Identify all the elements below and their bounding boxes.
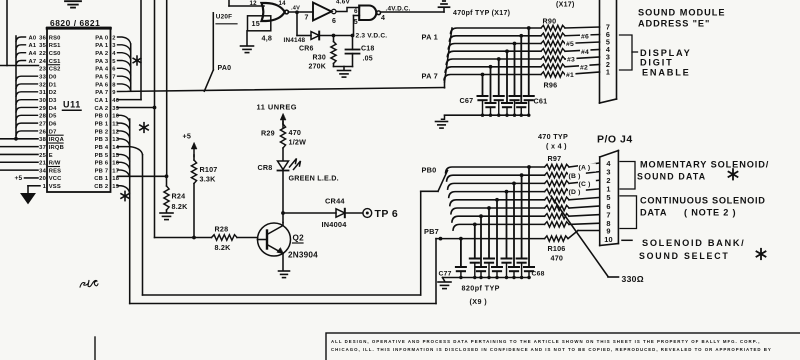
wire pin10 tick <box>622 239 632 241</box>
label MOMENTARY SOLENOID / SOUND DATA <box>637 159 769 181</box>
wire PB hook vertical outer <box>129 119 131 304</box>
resistor R96 470pf network row 7 <box>541 72 565 77</box>
pin 16 PB 6 of U11 <box>95 161 120 167</box>
svg-text:40: 40 <box>112 98 119 104</box>
wire capacitor common ground line (PA bank) <box>445 114 531 117</box>
svg-text:#4: #4 <box>581 49 589 56</box>
svg-text:3: 3 <box>112 43 116 49</box>
pin 3 of sound connector <box>606 53 610 62</box>
svg-text:9: 9 <box>112 90 116 96</box>
svg-text:CR8: CR8 <box>258 163 273 172</box>
asterisk at sound select <box>757 249 766 259</box>
svg-text:PA 2: PA 2 <box>95 51 108 57</box>
wire PB 2 hook <box>118 131 130 138</box>
svg-text:11 UNREG: 11 UNREG <box>257 102 298 111</box>
svg-text:PA 7: PA 7 <box>422 72 438 81</box>
wire D0 hook to bus <box>16 76 38 81</box>
label .4V <box>291 5 300 11</box>
resistor R29 470 1/2W <box>261 122 306 161</box>
label R106 470 <box>548 244 566 262</box>
svg-text:ADDRESS "E": ADDRESS "E" <box>638 18 710 28</box>
svg-text:( x 4 ): ( x 4 ) <box>546 141 567 150</box>
svg-text:10: 10 <box>112 114 119 120</box>
label 4.6V (clipped) <box>336 0 350 5</box>
svg-text:7: 7 <box>112 74 115 80</box>
svg-text:PA 1: PA 1 <box>422 33 438 42</box>
wire PA fan row to pin 1 <box>444 72 600 80</box>
svg-text:CA 1: CA 1 <box>95 98 109 104</box>
handwritten mark <box>80 280 98 287</box>
svg-text:SOUND MODULE: SOUND MODULE <box>638 8 726 18</box>
svg-text:#3: #3 <box>567 57 575 64</box>
svg-text:1/2W: 1/2W <box>289 138 307 147</box>
svg-text:PA 0: PA 0 <box>95 35 108 41</box>
svg-text:13: 13 <box>112 137 119 143</box>
wire PB inner loop bottom <box>143 191 421 295</box>
wire PA fan row to pin 6 <box>449 35 599 42</box>
svg-text:CR6: CR6 <box>299 46 314 53</box>
label 470 TYP (x4) <box>538 132 568 150</box>
label .4V.D.C. <box>386 6 411 13</box>
svg-text:5: 5 <box>112 59 116 65</box>
pin 19 CB 2 of U11 <box>94 184 119 190</box>
wire PB4 fan row <box>450 197 600 205</box>
svg-text:470: 470 <box>551 253 564 262</box>
svg-text:R24: R24 <box>172 191 186 200</box>
capacitor C74 820pf <box>484 259 494 278</box>
pin 10 of J4 <box>604 235 613 244</box>
svg-text:C77: C77 <box>439 270 452 277</box>
svg-text:PA 3: PA 3 <box>95 59 109 65</box>
ground at R30/C18 <box>338 71 351 78</box>
svg-text:MOMENTARY SOLENOID/: MOMENTARY SOLENOID/ <box>640 159 769 169</box>
power +5 at VCC pin 20 <box>15 175 39 182</box>
label #5 <box>565 40 575 48</box>
svg-text:.05: .05 <box>363 56 373 63</box>
label 470pf TYP (X17) <box>453 10 510 17</box>
pin 14 PB 4 of U11 <box>95 145 120 151</box>
svg-text:CONTINUOUS SOLENOID: CONTINUOUS SOLENOID <box>640 195 766 205</box>
svg-text:A0: A0 <box>28 35 36 41</box>
capacitor C65 470pf <box>494 96 504 115</box>
capacitor C63 470pf <box>510 96 520 115</box>
label (A ) <box>578 163 596 171</box>
pin 4 PA 2 of U11 <box>95 51 116 57</box>
svg-text:19: 19 <box>112 184 119 190</box>
resistor R103 470 row <box>545 214 569 219</box>
wire capacitor stub row 1 <box>527 26 531 96</box>
wire capacitor stub row 7 <box>481 73 485 96</box>
svg-text:Q2: Q2 <box>293 233 305 242</box>
wire PA fan row to pin 4 <box>447 50 599 57</box>
wire PB 1 hook <box>118 123 130 130</box>
svg-text:ALL DESIGN, OPERATIVE AND: ALL DESIGN, OPERATIVE AND PROCESS DATA P… <box>331 339 761 344</box>
wire A0 hook to bus <box>16 37 26 42</box>
svg-text:RS0: RS0 <box>49 35 61 41</box>
svg-text:+5: +5 <box>15 175 23 182</box>
svg-text:IRQB: IRQB <box>49 145 64 151</box>
svg-text:35: 35 <box>39 43 46 49</box>
connector sound module address <box>600 0 617 103</box>
svg-text:C61: C61 <box>534 96 548 105</box>
resistor R30 270K <box>309 36 337 71</box>
label pins 4,8 <box>262 33 273 42</box>
capacitor C72 820pf <box>502 259 512 278</box>
wire PB2 fan row <box>448 180 600 189</box>
svg-text:470pf TYP (X17): 470pf TYP (X17) <box>453 10 510 17</box>
resistor R98 470 row <box>545 173 569 178</box>
wire PA6 hook <box>118 84 131 91</box>
resistor R95 470pf network row 6 <box>541 64 565 69</box>
svg-text:P/O J4: P/O J4 <box>597 134 633 146</box>
svg-text:CHICAGO, ILL. THIS INFORMATI: CHICAGO, ILL. THIS INFORMATION IS DISCLO… <box>331 347 772 352</box>
wire PA2 hook <box>118 53 131 60</box>
svg-text:4.6V: 4.6V <box>336 0 350 5</box>
wire R106 row to pin 9 <box>436 231 600 242</box>
pin 1 VSS of U11 <box>43 184 61 190</box>
svg-text:RS1: RS1 <box>49 43 61 49</box>
pin 32 D1 of U11 <box>39 82 57 88</box>
svg-text:VSS: VSS <box>49 184 61 190</box>
resistor R24 8.2K <box>164 176 188 212</box>
resistor R99 470 row <box>545 181 569 186</box>
wire input 15 loop box <box>248 16 271 31</box>
wire input 12 from top edge <box>229 0 264 7</box>
svg-text:15: 15 <box>252 19 260 28</box>
ground at NAND output (clipped) <box>439 1 450 7</box>
wire PB 7 hook <box>118 170 130 177</box>
svg-text:1: 1 <box>43 184 47 190</box>
wire address/data bus vertical B <box>15 36 17 138</box>
wire R/W net from left edge <box>0 161 38 163</box>
svg-text:470: 470 <box>289 128 302 137</box>
bracket continuous solenoid <box>620 196 637 229</box>
svg-text:21: 21 <box>39 161 46 167</box>
svg-text:#6: #6 <box>581 33 589 40</box>
wire D1 hook to bus <box>16 84 38 89</box>
pin 39 CA 2 of U11 <box>95 106 120 112</box>
svg-text:U20F: U20F <box>216 13 232 20</box>
pin 8 of J4 <box>606 219 610 228</box>
svg-text:C18: C18 <box>361 46 374 53</box>
svg-text:820pf TYP: 820pf TYP <box>462 284 500 293</box>
resistor R107 3.3K <box>191 155 217 238</box>
pin 2 of J4 <box>606 176 610 185</box>
svg-text:CR44: CR44 <box>325 197 345 206</box>
svg-text:VCC: VCC <box>49 176 62 182</box>
svg-text:14: 14 <box>112 145 119 151</box>
wire RES net from left edge <box>0 169 38 171</box>
svg-text:U11: U11 <box>63 100 81 110</box>
pin 4 of J4 <box>606 159 611 168</box>
pin 3 of J4 <box>606 167 610 176</box>
wire U20F output node <box>288 10 313 35</box>
pin 40 CA 1 of U11 <box>95 98 120 104</box>
svg-text:25: 25 <box>39 153 46 159</box>
wire PB 0 hook <box>118 115 130 122</box>
capacitor C70 820pf <box>517 259 527 278</box>
wire capacitor stub J4 row 8 <box>473 223 477 259</box>
label C67 <box>460 96 474 105</box>
label C61 <box>534 96 548 105</box>
svg-text:26: 26 <box>39 129 46 135</box>
svg-text:270K: 270K <box>309 64 327 71</box>
label R97 <box>548 154 562 163</box>
wire A7 hook to bus <box>16 60 26 64</box>
pin 20 VCC of U11 <box>39 176 62 182</box>
ground at Q2 emitter <box>279 271 290 278</box>
label #4 <box>580 48 590 56</box>
pin 4 of sound connector <box>606 45 610 54</box>
svg-text:D4: D4 <box>49 106 57 112</box>
LED CR8 GREEN <box>258 159 339 183</box>
wire PB4 hook to inner vertical <box>118 147 143 295</box>
transistor Q2 2N3904 <box>258 223 319 260</box>
diode CR44 IN4004 <box>322 197 348 230</box>
pin 34 RES of U11 <box>39 167 61 175</box>
svg-text:32: 32 <box>39 82 46 88</box>
wire PB0 fan row <box>446 163 600 173</box>
svg-text:R107: R107 <box>200 165 218 174</box>
label PB0 <box>422 165 437 174</box>
bracket momentary solenoid <box>620 162 635 190</box>
pin 37 IRQB of U11 <box>39 143 64 151</box>
pin 3 PA 1 of U11 <box>95 43 116 49</box>
wire PB 3 hook <box>118 139 130 146</box>
wire PB5 fan row <box>451 206 600 214</box>
capacitor C61 470pf <box>524 96 534 115</box>
svg-text:(D ): (D ) <box>569 189 581 196</box>
wire capacitor stub J4 row 2 <box>520 173 524 258</box>
resistor R90 470pf network row 1 <box>541 25 565 30</box>
asterisk at sound data <box>729 169 738 179</box>
svg-text:R28: R28 <box>215 225 229 234</box>
wire capacitor stub J4 row 5 <box>495 198 499 267</box>
label (B ) <box>568 172 586 180</box>
label #3 <box>566 55 576 63</box>
inverter gate (7 to 6) <box>305 3 337 25</box>
label R96 <box>544 81 558 90</box>
ground at VSS <box>21 194 35 204</box>
svg-text:6: 6 <box>332 18 336 25</box>
asterisk note marker at CB2 <box>121 191 129 200</box>
resistor R91 470pf network row 2 <box>541 33 565 38</box>
label (C ) <box>578 180 596 188</box>
label CONTINUOUS SOLENOID DATA (NOTE 2) <box>640 195 766 217</box>
wire capacitor stub row 2 <box>519 34 523 103</box>
svg-text:CA 2: CA 2 <box>95 106 109 112</box>
pin 11 PB 1 of U11 <box>95 121 120 127</box>
pin 29 D4 of U11 <box>39 106 57 112</box>
svg-text:SOUND DATA: SOUND DATA <box>637 172 706 182</box>
wire node to diode CR6 <box>297 35 311 37</box>
svg-text:CS0: CS0 <box>49 51 61 57</box>
svg-text:15: 15 <box>112 153 119 159</box>
wire D6 hook to bus <box>16 123 38 128</box>
wire CR44 to TP6 <box>345 212 363 214</box>
resistor R93 470pf network row 4 <box>541 49 565 54</box>
pin 30 D3 of U11 <box>39 98 57 104</box>
svg-text:PB0: PB0 <box>422 165 437 174</box>
wire PB outer loop bottom <box>130 239 436 304</box>
svg-text:31: 31 <box>39 90 46 96</box>
label #2 <box>579 63 589 71</box>
pin 2 PA 0 of U11 <box>95 35 115 41</box>
label PB7 <box>424 227 439 236</box>
pin 10 PB 0 of U11 <box>95 114 120 120</box>
label PA 7 <box>422 72 438 81</box>
wire PB6 fan row <box>452 215 600 222</box>
wire IRQB net from left edge <box>0 146 38 148</box>
wire PB 6 hook <box>118 162 130 169</box>
svg-text:(B ): (B ) <box>569 173 581 180</box>
svg-text:PB 6: PB 6 <box>95 161 109 167</box>
svg-text:D3: D3 <box>49 98 57 104</box>
testpoint TP6 <box>363 208 398 220</box>
wire Q2 collector <box>282 213 284 223</box>
svg-text:#5: #5 <box>566 41 574 48</box>
wire PA1 hook <box>118 45 131 52</box>
wire PA5 hook <box>118 76 131 83</box>
pin 17 PB 7 of U11 <box>95 168 120 174</box>
svg-text:R/W: R/W <box>49 161 61 167</box>
capacitor C75 820pf <box>476 267 486 278</box>
gate NAND (6,5 to 4) <box>354 6 385 27</box>
svg-text:.4V: .4V <box>291 5 300 11</box>
wire PB3 fan row <box>449 189 600 198</box>
wire PA fan row to pin 7 <box>451 27 600 33</box>
svg-text:PB 4: PB 4 <box>95 145 109 151</box>
junction CB1/R24 <box>165 174 169 178</box>
capacitor C64 470pf <box>502 103 512 115</box>
wire address-bus vertical A <box>6 0 8 66</box>
resistor R100 470 row <box>545 189 569 194</box>
wire PB bus riser to J4 fan <box>421 171 448 192</box>
asterisk note marker near PA pins <box>133 56 141 65</box>
wire PB 5 hook <box>118 154 130 161</box>
svg-text:39: 39 <box>112 106 119 112</box>
wire 330ohm callout <box>551 196 619 277</box>
svg-text:24: 24 <box>39 59 46 65</box>
svg-text:14: 14 <box>279 0 287 7</box>
wire A4 hook to bus <box>16 53 26 58</box>
capacitor C69 820pf <box>524 267 534 278</box>
resistor R28 8.2K <box>212 225 238 253</box>
wire D4 hook to bus <box>16 107 38 112</box>
wire PA4 hook <box>118 68 131 75</box>
svg-text:PB7: PB7 <box>424 227 439 236</box>
svg-text:PB 0: PB 0 <box>95 114 109 120</box>
wire capacitor stub row 3 <box>513 42 517 96</box>
svg-text:CS1: CS1 <box>49 59 61 65</box>
wire PA fan row to pin 5 <box>448 42 599 49</box>
svg-text:#2: #2 <box>580 64 588 71</box>
svg-text:37: 37 <box>39 145 46 151</box>
svg-text:11: 11 <box>112 121 119 127</box>
wire PB7 fan row <box>453 223 600 230</box>
svg-text:17: 17 <box>112 168 119 174</box>
ground at PB capacitor bank <box>438 278 451 289</box>
wire D7 hook to bus <box>16 131 38 136</box>
wire PB1 fan row <box>447 172 600 181</box>
connector P/O J4 body <box>600 151 619 246</box>
pin 7 of sound connector <box>606 23 610 32</box>
asterisk note marker near PB pins <box>140 123 148 133</box>
wire capacitor stub J4 row 7 <box>479 214 483 267</box>
capacitor C76 820pf <box>470 259 480 278</box>
svg-text:20: 20 <box>39 176 46 182</box>
wire A1 hook to bus <box>16 45 26 50</box>
svg-text:D7: D7 <box>49 129 57 135</box>
capacitor C77 820pf <box>456 267 466 278</box>
svg-text:(X17): (X17) <box>556 1 575 8</box>
wire capacitor stub row 6 <box>489 65 493 103</box>
svg-text:PA 1: PA 1 <box>95 43 109 49</box>
wire R30/C18 to ground <box>334 67 353 71</box>
pin 26 D7 of U11 <box>39 129 56 135</box>
svg-text:2: 2 <box>112 35 115 41</box>
wire capacitor stub J4 row 4 <box>505 190 509 259</box>
label C68 <box>532 270 545 277</box>
svg-text:E: E <box>49 153 53 159</box>
svg-text:6: 6 <box>354 8 358 15</box>
wire E net from left edge <box>0 153 38 155</box>
label SOLENOID BANK / SOUND SELECT <box>639 238 745 261</box>
label U20F <box>216 13 237 24</box>
pin 25 E of U11 <box>39 153 53 159</box>
pin 5 of sound connector <box>606 38 610 47</box>
svg-text:PA 4: PA 4 <box>95 67 109 73</box>
svg-text:30: 30 <box>39 98 46 104</box>
svg-text:C68: C68 <box>532 270 545 277</box>
svg-text:22: 22 <box>39 51 46 57</box>
wire capacitor common ground line (PB bank) <box>443 276 531 279</box>
wire NAND output to top ground <box>381 8 444 12</box>
svg-text:SOLENOID BANK/: SOLENOID BANK/ <box>642 238 745 248</box>
legal notice box <box>326 333 800 360</box>
svg-text:PA 5: PA 5 <box>95 74 109 80</box>
label (X17) upper (clipped) <box>556 1 575 8</box>
resistor R102 470 row <box>545 205 569 210</box>
wire CA1 pin 40 to vertical from top <box>118 0 142 100</box>
svg-text:6820 / 6821: 6820 / 6821 <box>50 18 100 28</box>
svg-text:29: 29 <box>39 106 46 112</box>
pin 15 PB 5 of U11 <box>95 153 120 159</box>
wire collector node to CR44 <box>283 212 336 214</box>
pin 28 D5 of U11 <box>39 114 57 120</box>
svg-text:D0: D0 <box>49 74 57 80</box>
label (D ) <box>568 188 586 196</box>
pin 38 IRQA of U11 <box>39 135 64 143</box>
wire CR6 cathode to 2.3V node <box>319 34 354 38</box>
wire PA fan row to pin 3 <box>446 57 599 64</box>
svg-text:PB 5: PB 5 <box>95 153 109 159</box>
svg-text:27: 27 <box>39 121 46 127</box>
svg-text:R29: R29 <box>261 128 275 137</box>
label C77 <box>439 270 452 277</box>
svg-text:3.3K: 3.3K <box>200 174 217 183</box>
wire IRQA net from left edge <box>0 138 38 140</box>
svg-text:A7: A7 <box>28 59 36 65</box>
svg-text:D5: D5 <box>49 114 57 120</box>
svg-text:16: 16 <box>112 161 119 167</box>
wire PA0 tap to gates <box>204 13 213 91</box>
wire PA hook vertical <box>130 44 132 91</box>
svg-text:R106: R106 <box>548 244 566 253</box>
svg-text:.4V.D.C.: .4V.D.C. <box>386 6 411 13</box>
pin 18 CB 1 of U11 <box>94 176 119 182</box>
wire PA0 hook <box>118 37 131 44</box>
